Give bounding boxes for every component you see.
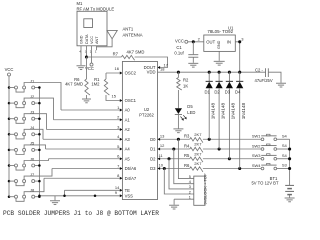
svg-text:ANT1: ANT1 — [123, 27, 134, 32]
wire C1 top — [192, 42, 194, 54]
IC U2 body — [122, 62, 157, 200]
VCC bus vertical — [8, 88, 10, 197]
svg-text:D4/A7: D4/A7 — [125, 176, 137, 181]
svg-text:3: 3 — [189, 185, 191, 189]
wire to U2 pin 6 — [49, 154, 123, 159]
wire rail to R2 — [177, 72, 179, 77]
svg-text:VCC: VCC — [90, 36, 94, 44]
svg-text:ANT: ANT — [95, 36, 99, 44]
wire DATA to R6 — [86, 57, 88, 79]
D2 arrow — [158, 157, 161, 160]
svg-text:2: 2 — [189, 190, 191, 194]
svg-text:PT2262: PT2262 — [139, 113, 154, 118]
solder jumper J4 — [8, 125, 41, 139]
pin 14 arrow — [120, 189, 123, 192]
svg-text:78L05- TO92: 78L05- TO92 — [207, 29, 233, 34]
svg-text:1N4148: 1N4148 — [211, 102, 216, 119]
svg-text:D2: D2 — [150, 156, 156, 161]
wire VSS line — [38, 190, 122, 197]
wire R2 to LED — [177, 90, 179, 108]
svg-text:1: 1 — [189, 196, 191, 200]
wire D0 row — [158, 138, 262, 140]
diode D1 1N4148 — [205, 72, 216, 139]
svg-text:D0: D0 — [150, 137, 156, 142]
wire VDD rail — [158, 67, 266, 73]
svg-text:SW3: SW3 — [252, 153, 261, 158]
wire to U2 pin 5 — [46, 144, 123, 149]
svg-text:ANTENNA: ANTENNA — [123, 33, 143, 38]
wire conn pin5 from D0 — [178, 139, 193, 178]
svg-text:VCC: VCC — [5, 67, 14, 72]
wire C1 bottom — [192, 57, 194, 63]
wire J6 to pin 6 — [24, 159, 48, 164]
resistor R4 2K7 — [184, 142, 203, 153]
svg-text:D5: D5 — [187, 104, 193, 109]
ground at U1 — [214, 61, 225, 65]
regulator U1 pin names — [206, 39, 231, 49]
resistor R3 2K7 — [184, 132, 203, 143]
resistor R2 1K — [177, 78, 189, 91]
diode D2 1N4148 — [214, 72, 225, 149]
wire conn pin3 from D2 — [169, 159, 194, 189]
svg-text:VCC: VCC — [175, 39, 184, 44]
svg-text:TE: TE — [125, 188, 131, 193]
switch SW3 — [252, 153, 290, 160]
svg-text:D1: D1 — [150, 147, 156, 152]
capacitor C1 — [174, 45, 198, 57]
svg-text:D4: D4 — [235, 89, 241, 94]
ground at VSS line — [50, 196, 60, 205]
svg-text:4: 4 — [189, 180, 191, 184]
wire D1 row — [158, 148, 262, 150]
GND bus vertical — [38, 88, 40, 196]
svg-text:GND: GND — [217, 40, 221, 49]
wire U1 IN pin 3 to rail — [235, 37, 244, 73]
svg-text:9VBLOCK + TOP: 9VBLOCK + TOP — [203, 173, 208, 204]
wire module DATA pin down — [86, 50, 88, 57]
pin 10 label — [159, 163, 164, 168]
resistor R5 2K7 — [184, 151, 203, 162]
capacitor C2 — [255, 68, 273, 84]
switch SW1 — [252, 133, 290, 140]
wire LED to ground — [177, 115, 179, 129]
junction VSS mid — [94, 195, 97, 198]
junction D2 diode tap — [228, 157, 231, 160]
svg-text:A2: A2 — [125, 127, 131, 132]
ground at C1 — [188, 63, 198, 67]
pin 13 label — [160, 133, 165, 138]
wire to U2 pin 8 — [44, 173, 122, 178]
wire D3 row — [158, 168, 262, 170]
svg-text:SW2: SW2 — [252, 143, 261, 148]
svg-text:OUT: OUT — [206, 39, 215, 44]
solder jumper J5 — [8, 141, 41, 155]
rail junction dots — [177, 71, 241, 74]
svg-text:15: 15 — [112, 94, 117, 99]
pin 16 arrow — [120, 72, 123, 75]
wire DATA line right segment to pin 17 — [135, 57, 168, 68]
svg-text:2K7: 2K7 — [194, 142, 202, 147]
svg-text:16: 16 — [115, 66, 120, 71]
wire conn pin2 from D3 — [164, 169, 194, 195]
wire U1 GND pin down — [218, 51, 220, 60]
svg-text:S3: S3 — [282, 163, 288, 168]
wire OSC2 down to R1 — [105, 73, 107, 79]
svg-text:R3: R3 — [184, 134, 190, 139]
svg-text:M1: M1 — [77, 1, 83, 6]
svg-text:2K7: 2K7 — [194, 151, 202, 156]
pin 11 label — [159, 153, 164, 158]
junction D2 connector tap — [167, 157, 170, 160]
D0 arrow — [158, 138, 161, 141]
svg-text:A5: A5 — [125, 156, 131, 161]
svg-text:OSC2: OSC2 — [125, 71, 137, 76]
svg-text:A1: A1 — [125, 117, 131, 122]
wire conn pin1 to ground — [174, 198, 194, 200]
ground at battery — [285, 198, 295, 202]
pin 5 arrow — [120, 148, 123, 151]
svg-text:D3: D3 — [150, 166, 156, 171]
svg-text:1N4148: 1N4148 — [241, 102, 246, 119]
svg-text:LED: LED — [187, 110, 195, 115]
ground at conn pin1 — [169, 199, 179, 209]
pin 7 arrow — [120, 167, 123, 170]
RF module M1 label — [77, 1, 115, 12]
VCC symbol at U1 — [175, 39, 188, 44]
wire to U2 pin 2 — [54, 115, 123, 120]
pin 1 arrow — [120, 109, 123, 112]
pin 2 arrow — [120, 118, 123, 121]
junction D0 connector tap — [177, 138, 180, 141]
solder jumper J3 — [8, 110, 41, 124]
wire J3 to pin 3 — [24, 114, 46, 130]
diode D4 1N4148 — [235, 72, 246, 168]
IC U2 left pin names — [125, 71, 137, 199]
junction D3 diode tap — [238, 167, 241, 170]
svg-text:RF AM Tx MODULE: RF AM Tx MODULE — [77, 6, 115, 11]
svg-text:1N4148: 1N4148 — [231, 102, 236, 119]
svg-text:4K7 SMD: 4K7 SMD — [127, 49, 145, 54]
resistor R6 4K7 SMD — [65, 77, 90, 95]
solder jumper J1 — [8, 78, 41, 92]
svg-text:D5/A6: D5/A6 — [125, 166, 137, 171]
svg-text:4K7 SMD: 4K7 SMD — [65, 82, 83, 87]
svg-text:1N4148: 1N4148 — [220, 102, 225, 119]
svg-text:13: 13 — [160, 133, 165, 138]
wire module ANT pin to antenna — [97, 39, 113, 47]
wire TE jog — [63, 190, 66, 197]
svg-text:1: 1 — [95, 49, 97, 53]
wire module VCC pin down — [91, 50, 93, 63]
svg-text:OSC1: OSC1 — [125, 98, 137, 103]
wire DATA line left segment — [87, 56, 122, 58]
solder jumper J8 — [8, 188, 41, 202]
pin 12 label — [160, 143, 165, 148]
ground at LED — [173, 129, 183, 133]
svg-text:1K: 1K — [183, 83, 188, 88]
junction C1 node — [192, 40, 195, 43]
resistor R6 2K7 — [184, 161, 203, 172]
switch SW2 — [252, 143, 290, 150]
LED D5 — [175, 104, 196, 120]
svg-text:A0: A0 — [125, 108, 131, 113]
note PCB solder jumpers — [3, 210, 159, 217]
wire J7 to pin 7 — [24, 169, 52, 180]
wire J4 to pin 4 — [24, 129, 43, 139]
svg-text:2K7: 2K7 — [194, 161, 202, 166]
ground at module GND — [77, 66, 86, 70]
VSS arrow — [120, 194, 123, 197]
junction D3 connector tap — [163, 167, 166, 170]
VCC symbol at module — [85, 63, 94, 71]
junction D1 diode tap — [218, 147, 221, 150]
wire to U2 pin 1 — [61, 105, 122, 110]
svg-text:GND: GND — [79, 35, 83, 44]
switch SW4 — [252, 163, 290, 170]
svg-text:5: 5 — [189, 175, 191, 179]
connector J9 body — [194, 176, 205, 205]
svg-text:2K7: 2K7 — [194, 132, 202, 137]
wire to U2 pin 3 — [47, 124, 123, 129]
svg-text:VSS: VSS — [125, 193, 134, 198]
svg-text:S4: S4 — [282, 153, 288, 158]
wire to U2 pin 4 — [43, 134, 122, 139]
svg-text:R2: R2 — [183, 78, 189, 83]
IC U2 name — [139, 107, 154, 118]
connector name label — [203, 173, 208, 204]
wire J8 to pin 8 — [24, 178, 44, 195]
ground at R6 — [82, 99, 91, 103]
pin 4 arrow — [120, 138, 123, 141]
wire VCC to U1 OUT pin 2 — [188, 36, 204, 42]
svg-text:VDD: VDD — [147, 70, 156, 75]
IC U2 right pin names — [144, 65, 157, 171]
battery BT1 symbol — [285, 185, 294, 197]
svg-text:47uF/25V: 47uF/25V — [255, 78, 273, 83]
svg-text:A3: A3 — [125, 137, 131, 142]
svg-text:0.1uf: 0.1uf — [174, 50, 184, 55]
svg-text:D2: D2 — [214, 89, 220, 94]
junction DATA node — [85, 55, 88, 58]
svg-text:5V TO 12V BT: 5V TO 12V BT — [251, 181, 279, 186]
svg-text:R4: R4 — [184, 143, 190, 148]
solder jumper J2 — [8, 94, 41, 108]
wire module GND pin down — [80, 50, 82, 65]
pin 6 arrow — [120, 157, 123, 160]
ground at C2 — [276, 83, 286, 87]
svg-text:A4: A4 — [125, 147, 131, 152]
pin 3 arrow — [120, 128, 123, 131]
svg-text:PCB SOLDER JUMPERS J1 to J8 @: PCB SOLDER JUMPERS J1 to J8 @ BOTTOM LAY… — [3, 210, 159, 217]
svg-text:SW4: SW4 — [252, 163, 261, 168]
battery BT1 labels — [251, 176, 279, 186]
wire D2 row — [158, 158, 262, 160]
resistor R7 — [113, 49, 145, 60]
svg-text:10: 10 — [159, 163, 164, 168]
svg-text:DATA: DATA — [85, 34, 89, 44]
solder jumper J7 — [8, 172, 41, 186]
svg-text:18: 18 — [160, 67, 165, 72]
antenna ANT1 labels — [123, 27, 143, 38]
wire to U2 pin 7 — [52, 163, 122, 168]
svg-text:D3: D3 — [225, 89, 231, 94]
svg-text:S4: S4 — [282, 143, 288, 148]
svg-text:R7: R7 — [113, 52, 119, 57]
svg-text:R6: R6 — [184, 163, 190, 168]
wire to U2 pin 14 — [65, 185, 123, 190]
wire J1 to pin 1 — [24, 83, 61, 111]
rail junctions — [288, 147, 291, 170]
pin 17 arrow — [158, 66, 161, 69]
svg-text:1M2: 1M2 — [91, 82, 100, 87]
junction D0 diode tap — [208, 138, 211, 141]
diode D3 1N4148 — [225, 72, 236, 159]
connector pin numbers — [189, 175, 191, 200]
RF module M1 pin labels — [79, 34, 99, 44]
regulator U1 body — [204, 35, 236, 51]
wire OSC2 from U2 — [106, 66, 122, 73]
svg-text:D1: D1 — [205, 89, 211, 94]
wire C2 to ground — [268, 72, 281, 83]
pin 15 arrow — [120, 99, 123, 102]
wire R1 to OSC1 — [106, 94, 122, 101]
wire J2 to pin 2 — [24, 98, 53, 120]
svg-text:S4: S4 — [282, 133, 288, 138]
wire R6 to ground — [86, 95, 88, 99]
svg-text:C2 -: C2 - — [255, 68, 264, 73]
VCC symbol jumper bus — [5, 67, 14, 88]
RF module M1 pin stubs — [79, 46, 97, 54]
D1 arrow — [158, 148, 161, 151]
pin 8 arrow — [120, 177, 123, 180]
RF module M1 body — [77, 11, 107, 46]
pin 17 label — [164, 63, 169, 68]
svg-text:R5: R5 — [184, 153, 190, 158]
D3 arrow — [158, 167, 161, 170]
svg-text:SW1: SW1 — [252, 134, 261, 139]
wire switch rail — [289, 139, 291, 185]
wire conn pin4 from D1 — [174, 149, 194, 184]
resistor R1 1M2 — [91, 77, 109, 95]
solder jumper J6 — [8, 156, 41, 170]
svg-text:U2: U2 — [144, 107, 150, 112]
wire J5 to pin 5 — [24, 145, 45, 149]
junction D1 connector tap — [172, 147, 175, 150]
regulator U1 label — [207, 25, 234, 34]
svg-text:12: 12 — [160, 143, 165, 148]
svg-text:IN: IN — [227, 39, 231, 44]
antenna ANT1 symbol — [107, 30, 117, 38]
